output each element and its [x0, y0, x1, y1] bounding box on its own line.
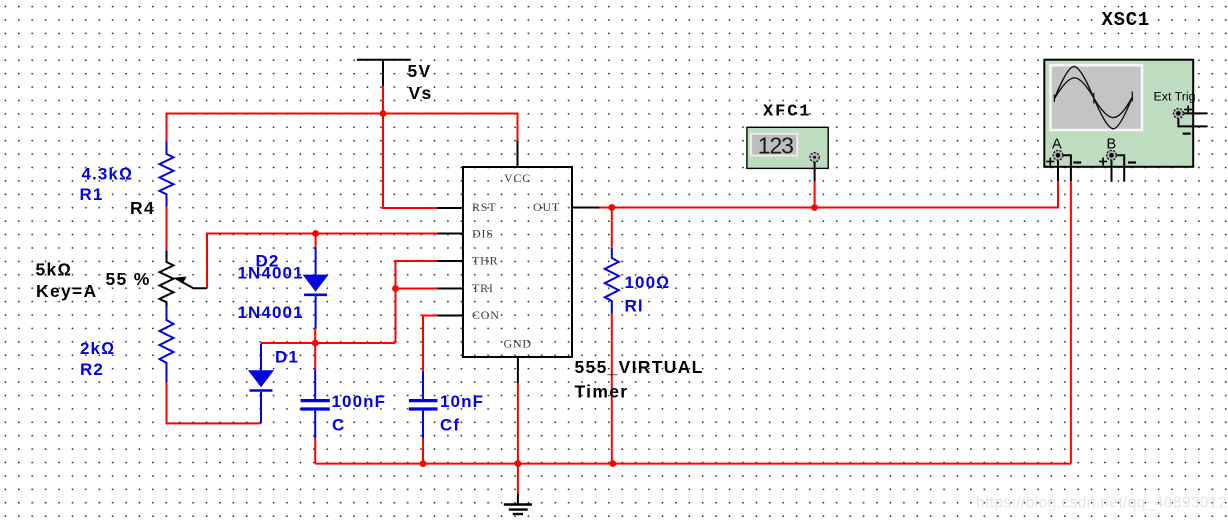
scope terminals [1053, 109, 1183, 161]
svg-text:XFC1: XFC1 [763, 102, 811, 121]
svg-text:GND: GND [504, 337, 532, 351]
svg-text:RST: RST [472, 200, 496, 214]
svg-text:123: 123 [758, 132, 793, 158]
capacitor C 100nF [301, 370, 330, 439]
svg-text:5kΩ: 5kΩ [36, 259, 73, 279]
node TRI/THR [392, 285, 399, 292]
svg-text:R1: R1 [80, 185, 104, 204]
pin RST [438, 207, 464, 209]
wire Vs down to RST [383, 86, 438, 208]
node Cf/bus [420, 460, 427, 467]
pin GND [517, 357, 519, 383]
wire THR down [396, 261, 438, 343]
wire top rail R1 to VCC [167, 114, 518, 142]
resistor R1 4.3kOhm [160, 141, 174, 206]
svg-text:5V: 5V [408, 61, 432, 81]
svg-text:2kΩ: 2kΩ [80, 339, 115, 358]
wire GND pin to ground [517, 383, 519, 493]
svg-text:100nF: 100nF [332, 392, 387, 411]
watermark [976, 495, 1227, 512]
svg-text:THR: THR [472, 254, 498, 268]
svg-text:1N4001: 1N4001 [238, 303, 304, 322]
wire CON down to Cf [423, 316, 438, 372]
pin TRI [438, 288, 464, 290]
node Rl/bus [609, 460, 616, 467]
svg-text:10nF: 10nF [440, 392, 484, 411]
svg-text:DIS: DIS [472, 227, 494, 241]
svg-text:OUT: OUT [533, 200, 560, 214]
pin labels [504, 171, 531, 185]
node DIS/D2 [312, 230, 319, 237]
svg-text:Cf: Cf [440, 416, 460, 435]
wire DIS node to D2 top [315, 234, 317, 249]
svg-text:Rl: Rl [625, 297, 644, 316]
svg-text:Key=A: Key=A [36, 281, 97, 301]
svg-text:R4: R4 [130, 198, 155, 218]
ground [504, 493, 532, 514]
svg-text:VCC: VCC [504, 171, 531, 185]
wire TRI stub [396, 288, 438, 290]
svg-text:R2: R2 [80, 360, 104, 379]
scope +/- marks [1046, 106, 1192, 166]
wire R2 bottom to D1 bottom [167, 382, 262, 423]
wire D2 bottom to node [314, 329, 316, 370]
pin THR [438, 260, 464, 262]
svg-text:C: C [332, 416, 345, 435]
wire ground bus [315, 463, 1071, 465]
diode D1 1N4001 [250, 344, 273, 424]
scope terminal wires [1058, 113, 1208, 181]
svg-text:XSC1: XSC1 [1102, 9, 1150, 31]
resistor Rl 100Ohm [605, 248, 619, 314]
svg-text:Vs: Vs [409, 83, 433, 103]
capacitor Cf 10nF [409, 371, 438, 438]
svg-text:D1: D1 [275, 348, 299, 367]
wire Cf bottom to bus [422, 438, 424, 464]
svg-text:CON: CON [472, 308, 500, 322]
svg-text:1N4001: 1N4001 [238, 263, 304, 282]
pin VCC [517, 141, 519, 168]
svg-text:https://blog.csdn.net/qq_40893: https://blog.csdn.net/qq_40893012 [976, 495, 1227, 512]
wire C bottom to bus [314, 438, 316, 464]
node GND/bus [515, 460, 522, 467]
node OUT/Rl [608, 204, 615, 211]
wire scope A- to bus [1070, 181, 1072, 464]
wire XFC1 drop [814, 182, 816, 208]
svg-text:100Ω: 100Ω [625, 273, 671, 292]
svg-text:TRI: TRI [472, 281, 494, 295]
pin OUT [572, 207, 600, 209]
svg-text:Ext Trig: Ext Trig [1154, 90, 1196, 104]
pin DIS [438, 233, 464, 235]
node OUT/XFC1 [811, 204, 818, 211]
resistor R2 2kOhm [160, 308, 174, 382]
XSC1 oscilloscope [1044, 60, 1195, 167]
power supply Vs 5V [357, 60, 411, 86]
XFC1 frequency counter [747, 127, 828, 181]
555 timer U1 body [463, 167, 572, 357]
pin stubs [438, 141, 600, 384]
wire DIS to wiper [207, 234, 438, 289]
svg-text:4.3kΩ: 4.3kΩ [82, 165, 134, 184]
wire R1 bottom to pot top [166, 206, 168, 250]
node D2/C [312, 340, 319, 347]
wire Rl bottom to bus [611, 314, 613, 464]
svg-text:55 %: 55 % [106, 269, 151, 289]
svg-text:555_VIRTUAL: 555_VIRTUAL [575, 357, 704, 377]
wire D1 top to THR vertical [261, 342, 396, 344]
diode D2 1N4001 [304, 247, 327, 328]
wire OUT to scope A+ [600, 181, 1058, 207]
wire Rl top [611, 208, 613, 249]
node Vs junction [380, 110, 387, 117]
pin CON [438, 315, 464, 317]
svg-text:Timer: Timer [575, 382, 629, 402]
potentiometer R4 5kOhm 55% [160, 250, 208, 308]
